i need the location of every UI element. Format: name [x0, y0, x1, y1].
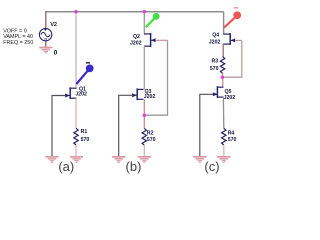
svg-text:J202: J202	[224, 95, 236, 101]
svg-text:R2: R2	[147, 130, 154, 136]
svg-text:570: 570	[147, 137, 156, 143]
svg-text:570: 570	[81, 137, 90, 143]
ground at Q3 gate	[112, 156, 125, 163]
svg-text:0: 0	[54, 49, 58, 56]
svg-text:570: 570	[228, 137, 237, 143]
ground below R4	[217, 156, 230, 163]
wire Q5 source to R4	[222, 97, 224, 128]
wire R3 to Q5 drain	[222, 73, 224, 87]
svg-text:FREQ = 250: FREQ = 250	[3, 40, 33, 46]
voltage marker (blue) on Q1 drain	[76, 62, 93, 84]
transistor Q3 J202	[132, 88, 144, 100]
svg-text:J202: J202	[209, 39, 221, 45]
wire Q1 gate to ground	[52, 96, 66, 157]
wire V2 top stub	[45, 11, 47, 30]
wire Q1 source to R1	[75, 98, 77, 128]
node junction at rail x=76	[74, 10, 77, 13]
svg-text:J202: J202	[75, 92, 87, 98]
wire Q3 source to R2	[143, 99, 145, 128]
source V2 (VSIN)	[39, 28, 51, 40]
svg-text:R3: R3	[212, 59, 219, 65]
ground at Q1 gate	[45, 156, 58, 163]
svg-text:J202: J202	[130, 41, 142, 47]
transistor Q1 J202	[65, 87, 77, 99]
wire R2 to ground	[143, 145, 145, 156]
transistor Q2 J202 (mirrored)	[144, 33, 156, 47]
ground below R2	[138, 156, 151, 163]
wire Q2 gate feedback loop	[155, 39, 167, 41]
transistor Q5 J202	[213, 86, 224, 98]
svg-text:Q4: Q4	[212, 32, 219, 38]
svg-text:(b): (b)	[126, 159, 142, 174]
resistor R3	[220, 57, 224, 74]
resistor R2	[142, 128, 146, 145]
resistor R1	[74, 128, 78, 145]
wire drop to Q1 drain	[75, 12, 77, 89]
wire rail right corner drop to Q4	[223, 12, 225, 34]
transistor Q4 J202 (mirrored)	[223, 33, 235, 45]
svg-text:570: 570	[210, 66, 219, 72]
wire Q4 gate feedback loop	[235, 39, 242, 41]
node junction R3/Q5/feedback	[221, 76, 224, 79]
ground 0 below V2	[39, 47, 52, 54]
svg-text:(a): (a)	[58, 159, 74, 174]
svg-text:R4: R4	[228, 130, 235, 136]
resistor R4	[222, 128, 226, 145]
wire Q3 gate to ground	[119, 95, 134, 156]
wire Q5 gate to ground	[200, 94, 213, 156]
wire Q4 source to R3	[222, 44, 224, 57]
wire Q2 source to Q3 drain	[143, 46, 145, 89]
ground at Q5 gate	[193, 156, 206, 163]
wire drop to Q2 drain	[143, 12, 145, 34]
svg-text:V2: V2	[50, 22, 57, 28]
svg-text:J202: J202	[144, 94, 156, 100]
wire top supply rail	[45, 11, 223, 13]
svg-text:R1: R1	[81, 129, 88, 135]
node junction at rail x=144	[143, 10, 146, 13]
svg-text:Q2: Q2	[133, 34, 140, 40]
node junction feedback/R2	[143, 114, 146, 117]
wire R1 to ground	[75, 145, 77, 156]
svg-text:(c): (c)	[204, 159, 219, 174]
label VSIN parameters	[3, 28, 33, 46]
ground below R1	[70, 156, 83, 163]
wire R4 to ground	[223, 145, 225, 156]
wire V2 bottom stub	[45, 39, 47, 47]
voltage marker (red) on Q4 drain	[224, 7, 241, 28]
voltage marker (green) on Q2 drain	[146, 13, 160, 27]
